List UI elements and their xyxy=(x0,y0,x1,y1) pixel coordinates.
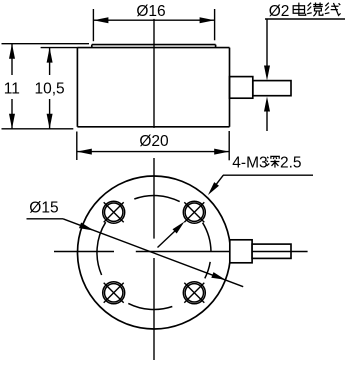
body top line xyxy=(77,47,229,49)
boss right edge xyxy=(215,45,217,48)
hole bottom-left outer circle xyxy=(103,282,125,304)
hole bottom-left X cross xyxy=(104,283,124,303)
hole top-right inner circle xyxy=(185,203,203,221)
dim 10.5 top arrow xyxy=(47,48,53,63)
dim 11 top extension line xyxy=(2,43,90,45)
cable (bottom view, white filled) xyxy=(252,244,291,258)
hole bottom-right outer circle xyxy=(183,282,205,304)
dim 10.5 top extension line xyxy=(41,47,78,49)
dim Ø20 right extension line xyxy=(228,131,230,160)
side view centerline xyxy=(153,19,155,128)
dim 10.5 bottom arrow xyxy=(47,114,53,129)
bottom view horizontal centerline right xyxy=(253,251,308,253)
dim 11 top arrow xyxy=(9,44,15,59)
svg-text:Ø16: Ø16 xyxy=(136,3,165,20)
label 缆 xyxy=(307,3,323,17)
Ø15 label underline xyxy=(27,218,64,220)
body bottom line xyxy=(77,126,229,128)
Ø2 top arrow xyxy=(264,66,270,81)
bolt circle left arc xyxy=(97,222,106,275)
dim 11 bottom arrow xyxy=(9,114,15,129)
dim Ø16 right arrow xyxy=(200,17,215,23)
hole top-left inner circle xyxy=(105,203,123,221)
boss left edge xyxy=(91,45,93,48)
dim Ø20 right arrow xyxy=(214,149,229,155)
bolt circle right lower arc xyxy=(205,262,210,279)
svg-text:Ø2: Ø2 xyxy=(269,3,290,20)
label 深 xyxy=(267,156,280,167)
bolt circle right upper arc xyxy=(203,223,211,252)
radial arrow head at top-right hole xyxy=(173,222,185,234)
bottom view horizontal centerline left xyxy=(54,251,114,253)
dim Ø16 left arrow xyxy=(93,17,108,23)
Ø2 leader vertical top segment xyxy=(266,19,268,66)
Ø15 arrow at outer circle lower right xyxy=(211,272,225,280)
label 电 xyxy=(293,3,306,16)
dim 11/10.5 bottom extension line xyxy=(2,128,74,130)
svg-text:11: 11 xyxy=(4,81,20,98)
Ø2 bottom arrow xyxy=(264,97,270,112)
4-M3 leader arrow xyxy=(208,182,219,195)
dim 11 top leader line xyxy=(11,44,13,75)
4-M3 leader line xyxy=(213,175,224,189)
body right edge xyxy=(229,48,231,127)
radial arrow line to top-right hole xyxy=(158,230,177,248)
hole bottom-right inner circle xyxy=(185,284,203,302)
Ø2 leader vertical bottom segment xyxy=(266,111,268,131)
label 线 xyxy=(325,3,341,16)
svg-text:Ø15: Ø15 xyxy=(29,199,58,216)
dim 10.5 bottom leader line xyxy=(49,99,51,129)
dim Ø20 left extension line xyxy=(76,132,78,161)
bolt circle bottom arc xyxy=(128,303,172,309)
dim 11 bottom leader line xyxy=(11,99,13,129)
dim Ø20 dimension line xyxy=(77,151,229,153)
bottom view horizontal centerline middle xyxy=(136,251,230,253)
dim Ø16 left extension line xyxy=(92,9,94,41)
Ø2 label underline leader xyxy=(265,18,345,20)
svg-text:2.5: 2.5 xyxy=(280,155,302,172)
hole bottom-right X cross xyxy=(184,283,204,303)
svg-text:10,5: 10,5 xyxy=(35,81,65,98)
dim Ø16 right extension line xyxy=(214,9,216,40)
outer circle (bottom view) xyxy=(78,176,231,329)
hole top-right X cross xyxy=(184,202,204,222)
dim Ø20 left arrow xyxy=(77,149,92,155)
cable stub (side view) xyxy=(230,77,253,99)
bolt circle top arc xyxy=(134,195,179,201)
hole bottom-left inner circle xyxy=(105,284,123,302)
body left edge xyxy=(76,48,78,127)
cable stub (bottom view, white filled) xyxy=(230,240,252,263)
4-M3 label underline xyxy=(223,174,313,176)
dim 10.5 top leader line xyxy=(49,48,51,75)
bottom view vertical centerline upper xyxy=(153,158,155,239)
svg-text:Ø20: Ø20 xyxy=(139,133,169,150)
Ø15 diameter line (diagonal through center) xyxy=(63,219,243,287)
dim Ø16 dimension line xyxy=(93,19,214,21)
svg-text:4-M3: 4-M3 xyxy=(232,155,267,172)
hole top-left outer circle xyxy=(103,201,125,223)
hole top-right outer circle xyxy=(183,201,205,223)
bottom view vertical centerline lower xyxy=(153,258,155,360)
cable (side view) xyxy=(253,81,291,96)
boss top line (Ø16 plate), side view xyxy=(92,44,216,46)
Ø15 arrow near left bolt circle xyxy=(79,223,94,231)
hole top-left X cross xyxy=(104,202,124,222)
